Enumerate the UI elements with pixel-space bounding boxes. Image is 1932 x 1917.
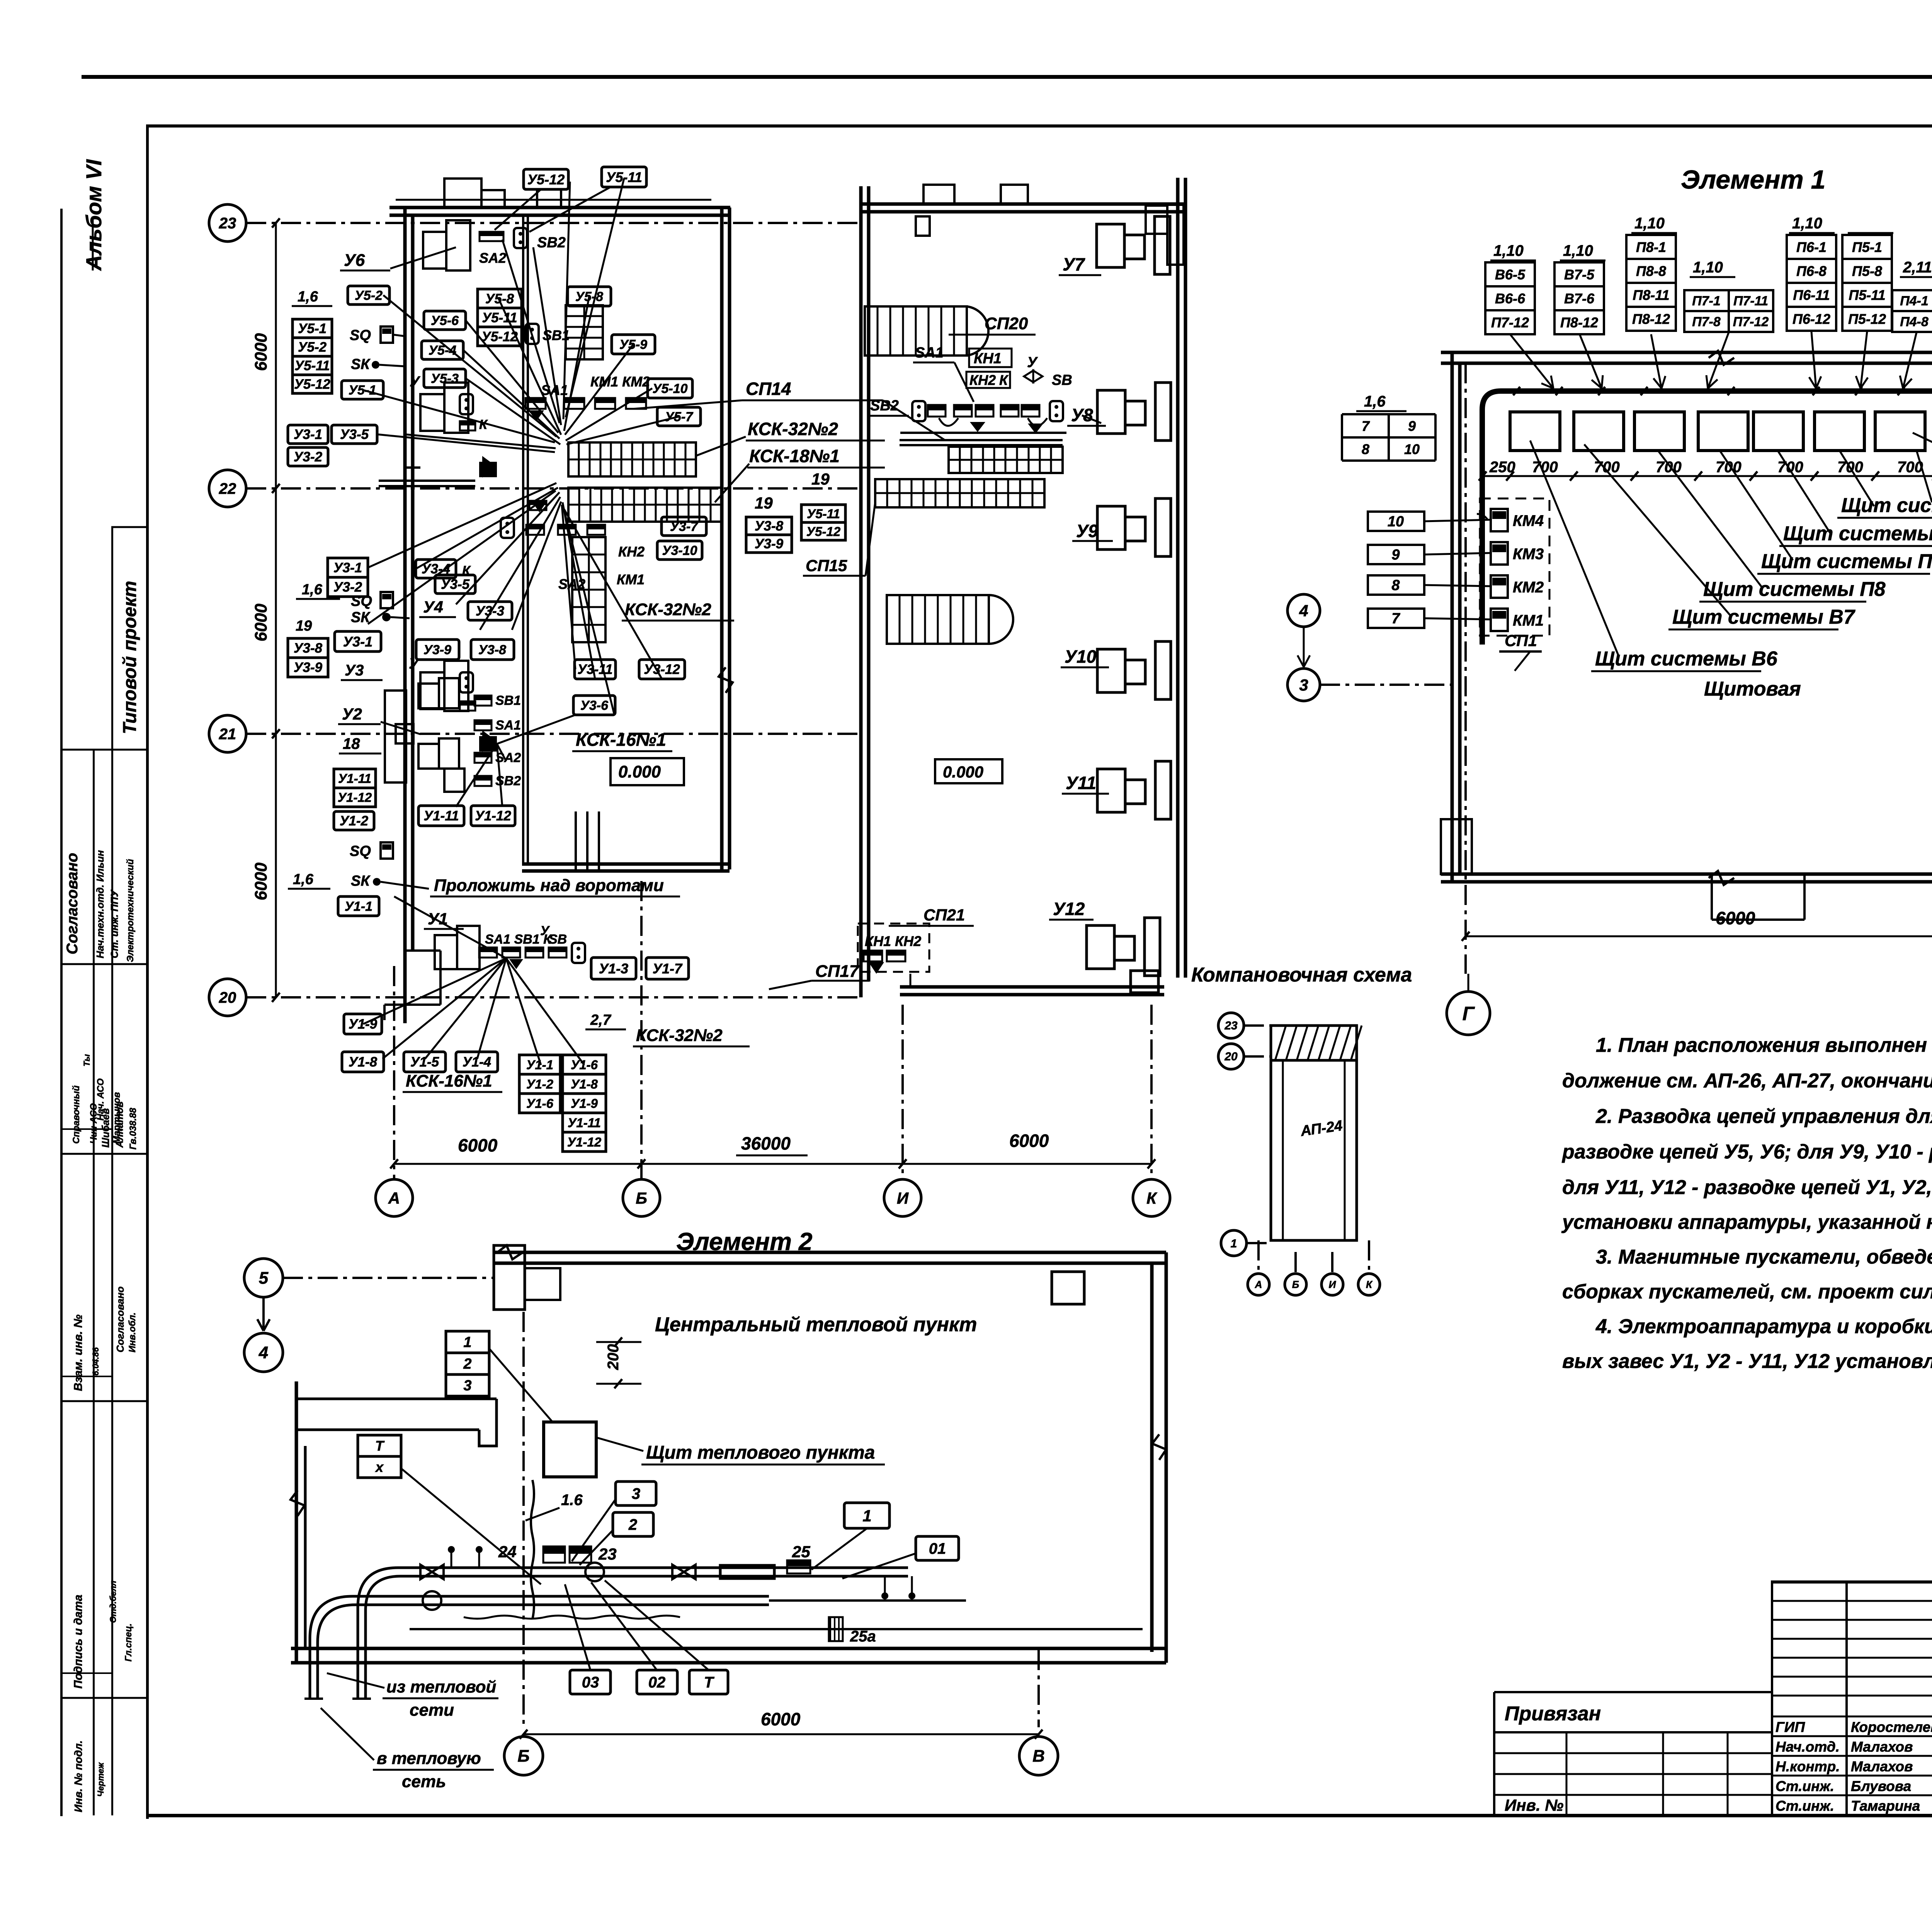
svg-text:6000: 6000	[252, 333, 270, 371]
У2 gate rects	[385, 691, 406, 782]
small recess bottom-left	[1441, 819, 1472, 874]
svg-text:П8-8: П8-8	[1636, 263, 1666, 279]
svg-text:3: 3	[632, 1485, 640, 1502]
svg-text:25: 25	[792, 1543, 810, 1561]
svg-text:КСК-32№2: КСК-32№2	[748, 419, 838, 439]
gate posts	[575, 811, 577, 871]
margin thin divider	[62, 1672, 111, 1674]
table У3-8/У3-9	[746, 517, 792, 535]
svg-text:SА2: SА2	[479, 250, 506, 266]
svg-text:Нач.техн.отд. Ильин: Нач.техн.отд. Ильин	[94, 850, 106, 958]
plan right slice top wall	[861, 202, 1185, 206]
svg-text:У5-2: У5-2	[355, 288, 383, 303]
upper beam line	[396, 199, 711, 201]
svg-text:В7-6: В7-6	[1564, 291, 1595, 306]
axis dash-dot lines Г Д	[1464, 363, 1467, 974]
svg-text:6000: 6000	[252, 604, 270, 641]
svg-text:7: 7	[1362, 418, 1370, 434]
table У1-6/У1-8/У1-9/У1-11/У1-12	[563, 1055, 606, 1074]
table У3-8/У3-9	[288, 638, 328, 658]
svg-text:4: 4	[259, 1343, 268, 1362]
svg-text:У3-6: У3-6	[580, 698, 609, 713]
svg-text:20: 20	[219, 989, 236, 1006]
svg-text:У10: У10	[1065, 646, 1097, 667]
element2 interior wall top-left	[296, 1398, 497, 1400]
svg-text:4. Электроаппаратура и короб: 4. Электроаппаратура и коробки соедините…	[1595, 1315, 1932, 1338]
svg-text:Отд.белл: Отд.белл	[108, 1580, 118, 1623]
air curtain unit У10	[1097, 649, 1125, 692]
label box У3-8	[471, 640, 514, 660]
svg-text:Т: Т	[704, 1674, 715, 1691]
table У5-8/У5-11/У5-12	[478, 289, 522, 308]
У6 unit rects	[423, 232, 446, 269]
svg-text:Ст.инж.: Ст.инж.	[1776, 1778, 1834, 1794]
svg-text:Ст. инж. ППУ: Ст. инж. ППУ	[109, 889, 120, 958]
svg-text:700: 700	[1716, 459, 1742, 476]
svg-text:8: 8	[1391, 577, 1400, 594]
svg-text:СП17: СП17	[815, 962, 860, 981]
svg-text:П6-12: П6-12	[1793, 311, 1830, 327]
plan left slice right wall	[720, 208, 724, 869]
label box 03	[570, 1670, 611, 1694]
svg-text:СП20: СП20	[985, 314, 1028, 333]
label box 02	[637, 1670, 677, 1694]
pushbutton row right slice	[928, 405, 946, 410]
panel box 4	[1698, 412, 1748, 451]
svg-text:9: 9	[1408, 418, 1416, 434]
margin divider	[62, 963, 146, 965]
riser pipes to heat network	[310, 1596, 358, 1699]
svg-text:У1-11: У1-11	[338, 771, 371, 786]
panel box 3	[1634, 412, 1684, 451]
svg-text:П7-1: П7-1	[1692, 294, 1721, 308]
svg-text:6.04.86: 6.04.86	[91, 1347, 100, 1376]
svg-text:2. Разводка цепей управлени: 2. Разводка цепей управления для У7, У8 …	[1595, 1105, 1932, 1128]
svg-text:П7-12: П7-12	[1733, 315, 1769, 329]
svg-text:25а: 25а	[850, 1628, 876, 1645]
label box У5-2	[348, 286, 389, 304]
svg-text:У5-11: У5-11	[606, 169, 642, 185]
svg-text:в тепловую: в тепловую	[377, 1749, 481, 1768]
label box У3-1	[335, 631, 381, 651]
top cut line of sheet	[82, 75, 1932, 79]
svg-text:П7-12: П7-12	[1491, 315, 1529, 330]
axis circle Г	[1447, 992, 1490, 1035]
plan interior wall	[522, 216, 524, 864]
svg-text:Малахов: Малахов	[1851, 1759, 1913, 1774]
svg-text:КСК-32№2: КСК-32№2	[625, 600, 711, 619]
svg-text:СП14: СП14	[746, 379, 791, 399]
label box У5-10	[648, 379, 692, 398]
svg-text:У5-12: У5-12	[527, 172, 565, 187]
left margin inner column line	[93, 750, 95, 1815]
svg-text:SВ2: SВ2	[537, 235, 566, 251]
svg-text:1,10: 1,10	[1792, 215, 1822, 232]
svg-text:Инв.обл.: Инв.обл.	[127, 1312, 138, 1352]
scheme axis circle 1	[1221, 1230, 1247, 1256]
signature table grid	[1771, 1580, 1773, 1815]
air curtain unit У12	[1087, 925, 1114, 969]
pump circle on upper pipe	[585, 1563, 604, 1581]
svg-text:Согласовано: Согласовано	[64, 853, 81, 954]
leaders from tray label groups	[1510, 334, 1553, 388]
element1 door jambs	[1711, 874, 1713, 920]
label box У1-9	[344, 1014, 382, 1034]
svg-text:У2: У2	[342, 705, 362, 723]
svg-text:П7-11: П7-11	[1733, 294, 1768, 308]
svg-text:1: 1	[1231, 1237, 1237, 1250]
svg-text:Т: Т	[375, 1438, 385, 1454]
svg-text:КМ1: КМ1	[1513, 612, 1544, 629]
dim 6000 element2	[524, 1733, 1039, 1735]
comps row У3 lower	[526, 525, 544, 529]
svg-text:У: У	[409, 656, 420, 672]
binding table Привязан	[1494, 1691, 1771, 1693]
svg-text:установки аппаратуры, указа: установки аппаратуры, указанной на плане…	[1561, 1211, 1932, 1233]
crane beam right slice	[900, 439, 1063, 441]
svg-text:П6-1: П6-1	[1796, 239, 1827, 255]
svg-text:У1-11: У1-11	[568, 1116, 601, 1130]
svg-text:Щит теплового пункта: Щит теплового пункта	[646, 1442, 875, 1463]
svg-text:SА1: SА1	[495, 718, 521, 733]
arrow 5 to 4	[262, 1297, 265, 1331]
roof blocks right slice	[923, 185, 954, 204]
svg-text:5: 5	[259, 1269, 269, 1288]
svg-text:SВ1: SВ1	[495, 693, 521, 708]
svg-text:П5-12: П5-12	[1848, 311, 1886, 327]
svg-text:SА2: SА2	[558, 576, 585, 592]
drawing frame bottom	[146, 1814, 1932, 1817]
margin cell top line	[111, 526, 146, 528]
element1 cable route thick line	[1482, 391, 1932, 862]
svg-text:Нач.отд.: Нач.отд.	[1776, 1739, 1840, 1755]
svg-text:2,11: 2,11	[1903, 259, 1932, 276]
svg-text:Блувова: Блувова	[1851, 1778, 1911, 1794]
svg-text:У7: У7	[1063, 254, 1085, 274]
scheme bottom axis circles	[1257, 1240, 1260, 1272]
wires from feeders to starters	[1477, 514, 1488, 520]
element2 axis circle 4	[244, 1333, 283, 1372]
svg-text:Привязан: Привязан	[1505, 1703, 1601, 1725]
roof blocks above wall	[444, 179, 481, 208]
svg-text:КН1: КН1	[974, 350, 1002, 367]
starter КМ1	[1491, 609, 1508, 631]
svg-text:6000: 6000	[1716, 908, 1755, 928]
label box У1-2	[334, 811, 374, 830]
svg-text:У3-12: У3-12	[644, 662, 680, 677]
svg-text:700: 700	[1532, 459, 1558, 476]
svg-text:SQ: SQ	[350, 327, 371, 344]
svg-text:Щит системы В6: Щит системы В6	[1595, 648, 1778, 670]
svg-text:SВ: SВ	[549, 932, 567, 947]
svg-text:Чертеж: Чертеж	[96, 1762, 105, 1797]
svg-text:В6-6: В6-6	[1495, 291, 1526, 306]
svg-text:6000: 6000	[458, 1135, 498, 1155]
svg-text:Гв.038.88: Гв.038.88	[128, 1107, 138, 1150]
label box 3	[616, 1482, 656, 1505]
heat panel box	[544, 1422, 596, 1477]
margin divider	[62, 749, 146, 751]
svg-text:СП15: СП15	[806, 556, 847, 575]
label box Т	[689, 1670, 728, 1694]
leaders from node21	[456, 744, 497, 807]
svg-text:У1-2: У1-2	[526, 1077, 554, 1091]
drawing frame left	[146, 124, 149, 1819]
svg-text:У3-7: У3-7	[670, 519, 699, 534]
scheme sheet rectangle with hatched strip	[1271, 1026, 1357, 1060]
svg-text:У5-7: У5-7	[665, 410, 694, 424]
axis Б dash-dot	[522, 1312, 525, 1727]
label box У1-8	[342, 1052, 384, 1072]
svg-text:У1-11: У1-11	[423, 808, 459, 823]
svg-text:КН2: КН2	[969, 372, 996, 388]
svg-text:П6-11: П6-11	[1793, 287, 1830, 303]
svg-text:Нач. АСО: Нач. АСО	[95, 1078, 106, 1121]
panel box 2	[1574, 412, 1624, 451]
svg-text:24: 24	[498, 1543, 517, 1561]
panel box 1	[1510, 412, 1560, 451]
double line through gates 22	[379, 480, 475, 482]
axis circles 4 and 3	[1287, 594, 1320, 627]
svg-text:Электротехнический: Электротехнический	[125, 859, 136, 962]
svg-text:У5-12: У5-12	[294, 377, 330, 392]
svg-text:1,10: 1,10	[1693, 259, 1723, 276]
svg-text:сети: сети	[410, 1701, 454, 1720]
svg-text:1.6: 1.6	[561, 1492, 583, 1509]
svg-text:КМ1: КМ1	[617, 572, 645, 587]
svg-text:У3-8: У3-8	[478, 643, 506, 657]
svg-text:Ст.инж.: Ст.инж.	[1776, 1798, 1834, 1814]
svg-text:П4-8: П4-8	[1900, 315, 1929, 329]
svg-text:Щит системы П6: Щит системы П6	[1783, 522, 1932, 545]
stair block 1	[865, 306, 967, 356]
svg-text:Взам. инв. №: Взам. инв. №	[72, 1315, 85, 1391]
svg-text:КСК-18№1: КСК-18№1	[749, 446, 840, 466]
panel box 5	[1753, 412, 1803, 451]
long drain pipe	[410, 1628, 1143, 1630]
svg-text:У1-1: У1-1	[345, 899, 372, 914]
label box У3-5	[435, 575, 475, 594]
svg-text:SВ: SВ	[1052, 372, 1072, 388]
svg-text:К: К	[1366, 1279, 1373, 1290]
svg-text:У9: У9	[1076, 521, 1098, 541]
left margin column line	[111, 527, 113, 1815]
svg-text:1,6: 1,6	[293, 871, 314, 888]
svg-text:КН1 КН2: КН1 КН2	[865, 933, 921, 949]
svg-text:Ты: Ты	[82, 1054, 92, 1067]
axis circle 21	[209, 715, 246, 752]
svg-text:1,10: 1,10	[1563, 242, 1593, 259]
svg-text:У3-1: У3-1	[294, 427, 322, 442]
element2 pilaster on axis Б	[494, 1245, 525, 1310]
label box У3-5	[332, 425, 377, 444]
plan left slice left wall	[403, 208, 407, 1023]
label box У3-1	[288, 425, 328, 444]
svg-text:700: 700	[1656, 459, 1682, 476]
feeder box 9	[1368, 545, 1424, 564]
svg-text:У5-6: У5-6	[431, 313, 459, 328]
svg-text:КСК-32№2: КСК-32№2	[636, 1026, 723, 1045]
svg-text:А: А	[388, 1189, 400, 1207]
svg-text:У3-1: У3-1	[343, 634, 372, 650]
margin divider	[62, 1697, 146, 1699]
svg-text:У4: У4	[423, 598, 443, 616]
plan left slice top wall	[389, 206, 730, 209]
svg-text:У12: У12	[1053, 899, 1085, 919]
valve left	[420, 1565, 444, 1579]
stair block 2	[887, 595, 989, 644]
svg-text:КН2: КН2	[618, 544, 645, 560]
leader fan from node	[383, 295, 556, 437]
svg-text:1,6: 1,6	[302, 582, 323, 598]
leader fan У1	[363, 958, 506, 1024]
axis circle Б	[623, 1179, 660, 1216]
text У8 leader	[1082, 415, 1101, 423]
svg-text:Щит системы П5: Щит системы П5	[1841, 494, 1932, 517]
wavy flexible link	[464, 1616, 680, 1619]
scheme axis circle 23	[1218, 1013, 1244, 1038]
leader fan 3	[368, 483, 556, 568]
svg-text:СП1: СП1	[1505, 631, 1537, 650]
svg-text:разводке цепей У5, У6; д: разводке цепей У5, У6; для У9, У10 - раз…	[1561, 1141, 1932, 1163]
table У5-1/У5-2/У5-11/У5-12	[293, 319, 332, 338]
label box У5-11	[602, 167, 646, 187]
element2 bottom wall	[291, 1647, 1166, 1650]
text 0.000 right slice	[935, 759, 1002, 783]
svg-text:Б: Б	[636, 1189, 647, 1207]
table У5-11/У5-12	[801, 505, 845, 522]
feeder box 10	[1368, 512, 1424, 531]
svg-text:П8-12: П8-12	[1560, 315, 1598, 330]
svg-text:У1-8: У1-8	[349, 1055, 378, 1070]
title block top line	[1771, 1580, 1932, 1584]
svg-text:У1-8: У1-8	[571, 1077, 598, 1091]
svg-text:6000: 6000	[1009, 1131, 1049, 1151]
svg-text:К: К	[1146, 1189, 1158, 1207]
left sheet edge line	[60, 209, 63, 1816]
panel box 6	[1815, 412, 1864, 451]
svg-text:П5-11: П5-11	[1849, 287, 1885, 303]
svg-text:3: 3	[1299, 676, 1308, 694]
link СП15	[866, 502, 875, 576]
svg-text:1,6: 1,6	[1364, 393, 1386, 410]
svg-text:КМ2: КМ2	[1513, 579, 1544, 596]
svg-text:Щит системы П8: Щит системы П8	[1703, 578, 1886, 600]
plan left slice bottom wall with gate	[522, 862, 730, 866]
svg-text:200: 200	[605, 1344, 622, 1370]
svg-text:19: 19	[811, 470, 830, 488]
label box У1-11	[418, 806, 464, 826]
svg-text:У3-1: У3-1	[333, 560, 362, 575]
margin thin divider	[62, 1128, 111, 1130]
svg-text:У5-12: У5-12	[806, 524, 841, 539]
axis circle 23	[209, 204, 246, 242]
label box У3-6	[573, 696, 615, 715]
svg-text:КМ3: КМ3	[1513, 546, 1544, 563]
plan right slice bottom wall	[900, 985, 1164, 989]
leads on pipes	[451, 1551, 452, 1568]
pump circle on lower pipe	[423, 1591, 441, 1610]
svg-text:Щит системы В7: Щит системы В7	[1672, 606, 1855, 628]
svg-text:КСК-16№1: КСК-16№1	[406, 1072, 492, 1090]
svg-text:7: 7	[1391, 611, 1400, 627]
table box T x	[358, 1435, 401, 1456]
svg-text:9: 9	[1391, 547, 1400, 563]
cable tray КСК right 2	[875, 479, 1044, 507]
У-shape apparatus at 22	[420, 394, 444, 431]
svg-text:У: У	[540, 924, 550, 938]
svg-text:ГИП: ГИП	[1776, 1719, 1805, 1735]
svg-text:У3-8: У3-8	[294, 641, 323, 656]
cable tray vertical upper	[566, 305, 603, 359]
svg-text:У3-2: У3-2	[333, 580, 362, 595]
vertical dimension line left	[275, 223, 277, 997]
label box У5-3	[424, 369, 466, 388]
svg-text:Н.контр.: Н.контр.	[1776, 1759, 1840, 1774]
svg-text:Малахов: Малахов	[1851, 1739, 1913, 1755]
table У1-11/У1-12	[334, 769, 376, 788]
svg-text:У5-11: У5-11	[482, 310, 517, 325]
axis circle В element2	[1019, 1737, 1058, 1775]
kick line bottom right slice	[910, 974, 912, 987]
svg-text:У3-9: У3-9	[755, 536, 784, 551]
scheme axis circle 20	[1218, 1044, 1244, 1069]
svg-text:22: 22	[219, 480, 236, 497]
leader fan 2	[533, 247, 561, 425]
svg-text:У5-11: У5-11	[294, 358, 330, 373]
svg-text:01: 01	[929, 1540, 946, 1557]
dimension 6000 element1	[1466, 936, 1932, 937]
panel spacing dimension line	[1480, 475, 1932, 477]
svg-text:19: 19	[755, 494, 773, 512]
svg-text:Согласовано: Согласовано	[114, 1286, 126, 1352]
svg-text:У3-10: У3-10	[662, 543, 697, 558]
leader lines from panels	[1530, 441, 1619, 657]
svg-text:У3: У3	[345, 662, 364, 679]
element1 left wall	[1451, 352, 1454, 882]
svg-text:Щитовая: Щитовая	[1704, 678, 1801, 700]
svg-text:У5-12: У5-12	[481, 329, 518, 344]
element1 top wall	[1441, 351, 1932, 354]
svg-text:У5-2: У5-2	[298, 340, 327, 355]
axis circle К	[1133, 1179, 1170, 1216]
svg-text:SQ: SQ	[351, 593, 372, 609]
label box У5-12	[524, 169, 568, 189]
dashed enclosure СП1	[1480, 498, 1549, 636]
svg-text:SQ: SQ	[350, 843, 371, 859]
svg-text:У1-12: У1-12	[475, 808, 511, 823]
svg-text:КМ4: КМ4	[1513, 512, 1544, 529]
svg-text:П8-11: П8-11	[1633, 287, 1669, 303]
starter КМ2	[1491, 575, 1508, 598]
element2 right wall	[1150, 1263, 1154, 1652]
svg-text:У3-5: У3-5	[340, 427, 369, 442]
starter КМ3	[1491, 542, 1508, 565]
svg-text:Щит системы П7: Щит системы П7	[1761, 550, 1932, 573]
У1 apparatus	[435, 935, 457, 969]
axis circle 20	[209, 979, 246, 1016]
label box У1-4	[456, 1052, 498, 1072]
label box У3-11	[575, 660, 616, 679]
axis circle А	[376, 1179, 413, 1216]
svg-text:У1-2: У1-2	[340, 813, 369, 828]
feeder box 8	[1368, 575, 1424, 595]
svg-text:У1-7: У1-7	[653, 961, 683, 976]
panel box 7	[1875, 412, 1925, 451]
table У1-1/У1-2/У1-6	[519, 1055, 560, 1074]
svg-text:Элемент 1: Элемент 1	[1681, 165, 1825, 194]
label box У3-2	[288, 447, 328, 466]
